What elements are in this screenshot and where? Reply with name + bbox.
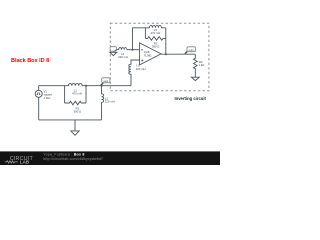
voltage source V1 <box>35 90 42 97</box>
junction dot at flag node <box>101 85 103 87</box>
inductor L1 <box>65 84 86 86</box>
junction dot feedback/output <box>165 53 167 55</box>
circuitlab logo <box>5 156 34 165</box>
svg-text:220 mH: 220 mH <box>118 55 128 59</box>
svg-text:LAB: LAB <box>20 160 30 165</box>
svg-text:TL081: TL081 <box>144 54 152 58</box>
op-amp OA8 <box>140 43 161 65</box>
svg-text:390 Ω: 390 Ω <box>74 110 82 114</box>
svg-text:Black Box ID 8: Black Box ID 8 <box>11 58 49 64</box>
wire feedback pair right down to output <box>165 28 167 54</box>
svg-text:470 mH: 470 mH <box>72 92 82 96</box>
resistor R1 <box>65 101 86 105</box>
inductor L3 (series to + input) <box>129 60 140 86</box>
inductor L4 (minus input) <box>113 48 127 53</box>
wire minus input <box>127 49 140 51</box>
svg-text:http://circuitlab.com/c68kyvpd: http://circuitlab.com/c68kyvpdwbd7 <box>43 157 103 161</box>
ground (bottom left) <box>74 120 76 131</box>
node A junction dot <box>85 85 87 87</box>
svg-text:out1: out1 <box>189 48 195 52</box>
wire V1 bottom stub <box>38 97 40 120</box>
svg-text:1 kΩ: 1 kΩ <box>199 63 205 67</box>
junction dot minus node <box>132 49 134 51</box>
svg-text:390 Ω: 390 Ω <box>152 45 160 49</box>
wire node A to L3 riser <box>86 85 131 87</box>
svg-text:470 mH: 470 mH <box>151 31 161 35</box>
wire feedback riser and top <box>133 28 146 50</box>
ground (minus input) <box>110 52 117 55</box>
node flag out1 (right) <box>185 51 187 54</box>
inductor L2 (shunt to ground rail) <box>102 86 104 120</box>
black box dashed boundary <box>110 23 209 91</box>
svg-text:220 mH: 220 mH <box>136 67 146 71</box>
resistor R2 (feedback) <box>145 37 165 41</box>
wire op-amp output <box>161 53 195 55</box>
svg-text:Yopa_Fujiteara : Box 8: Yopa_Fujiteara : Box 8 <box>43 152 84 156</box>
inductor L5 (feedback) <box>145 25 165 27</box>
resistor R3 (load) <box>194 54 198 77</box>
wire top rail to L1 <box>39 85 65 87</box>
gnd net flag (minus input) <box>110 47 116 52</box>
wire parallel branch right <box>85 86 87 103</box>
svg-text:1 kHz: 1 kHz <box>44 96 52 100</box>
component labels <box>44 28 205 114</box>
wire V1 top stub <box>38 86 40 91</box>
wire parallel branch left <box>64 86 66 103</box>
svg-text:Inverting circuit: Inverting circuit <box>175 96 207 101</box>
wire feedback pair left <box>144 28 146 39</box>
svg-text:220 mH: 220 mH <box>105 100 115 104</box>
node flag out1 (left) <box>101 83 103 86</box>
svg-text:out1: out1 <box>103 79 109 83</box>
ground (right) <box>191 77 199 80</box>
wire bottom rail <box>39 119 102 121</box>
footer bar <box>0 151 220 165</box>
